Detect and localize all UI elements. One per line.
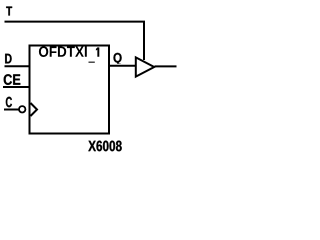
wire C input xyxy=(4,109,19,111)
part number X6008 xyxy=(88,141,121,152)
component name suffix 1 xyxy=(96,47,99,56)
pin label C xyxy=(6,97,12,107)
flip-flop U1 OFDTXI_1 body xyxy=(30,46,110,134)
wire CE input xyxy=(3,86,30,88)
tri-state buffer xyxy=(136,57,154,76)
pin label Q xyxy=(114,53,122,65)
wire Q output xyxy=(109,65,137,67)
pin label CE xyxy=(4,74,21,85)
wire D input xyxy=(5,65,31,67)
inversion bubble on C pin xyxy=(19,106,25,112)
wire T net to tri-state control xyxy=(5,22,145,60)
wire buffer output xyxy=(155,65,177,67)
net label T xyxy=(6,7,12,16)
component name OFDTXI xyxy=(39,46,87,57)
component name underscore xyxy=(89,62,95,63)
pin label D xyxy=(5,54,11,64)
clock wedge on C pin xyxy=(31,103,38,116)
